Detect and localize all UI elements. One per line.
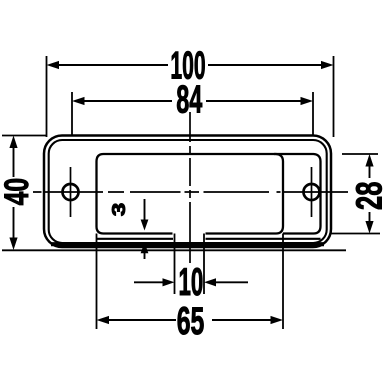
ext line 65 left — [96, 234, 98, 330]
dim 100 ext right — [333, 56, 335, 137]
dim 84 ext right — [312, 92, 314, 136]
housing bottom wall band — [51, 242, 324, 246]
dim 100 ext left — [46, 56, 48, 137]
dim 40 arrow up — [9, 136, 17, 149]
svg-text:40: 40 — [0, 178, 36, 206]
dim 100 arrow right — [321, 61, 334, 69]
dim 84 arrow right — [301, 97, 314, 105]
dim 84 line — [84, 100, 301, 102]
vertical centerline — [189, 112, 191, 263]
dim 28 ext bottom — [331, 233, 380, 235]
dim 84 arrow left — [72, 97, 85, 105]
dim 100 arrow left — [47, 61, 60, 69]
horizontal centerline — [33, 191, 348, 193]
housing outer contour — [44, 136, 331, 248]
svg-text:10: 10 — [178, 261, 203, 304]
step line — [97, 238, 321, 240]
baseline / mounting surface line — [2, 249, 346, 251]
hole right — [304, 184, 320, 200]
dim 28 line — [369, 166, 371, 222]
dim 65 arrow left — [97, 316, 110, 324]
svg-text:65: 65 — [177, 299, 205, 342]
ext line 65 right — [282, 234, 284, 330]
lens right section — [274, 154, 321, 234]
hole left — [63, 184, 79, 200]
dim 10 left arrow — [134, 281, 163, 283]
svg-text:28: 28 — [348, 182, 385, 210]
dim 28 arrow up — [365, 154, 373, 167]
svg-text:3: 3 — [109, 203, 130, 216]
svg-text:84: 84 — [176, 77, 202, 120]
dim 28 arrow down — [365, 221, 373, 234]
dim 40 ext top — [2, 135, 46, 137]
dim 3 lower arrow — [144, 253, 146, 259]
dim 28 ext top — [342, 153, 378, 155]
dim 65 line — [108, 319, 271, 321]
dim 40 line — [13, 147, 15, 238]
lens window 65mm with bottom notch gap — [97, 154, 284, 234]
dim 100 line — [58, 64, 322, 66]
dim 65 arrow right — [271, 316, 284, 324]
dim 84 ext left — [71, 92, 73, 136]
hole right vertical centerline — [311, 167, 313, 217]
hole left vertical centerline — [70, 167, 72, 217]
dim 3 upper arrow — [144, 199, 146, 220]
housing inner contour — [49, 140, 327, 243]
notch wall left / ext line for 10 — [174, 234, 176, 295]
notch wall right / ext line for 10 — [203, 234, 205, 295]
dim 40 arrow down — [9, 238, 17, 251]
dim 10 right arrow — [216, 281, 248, 283]
